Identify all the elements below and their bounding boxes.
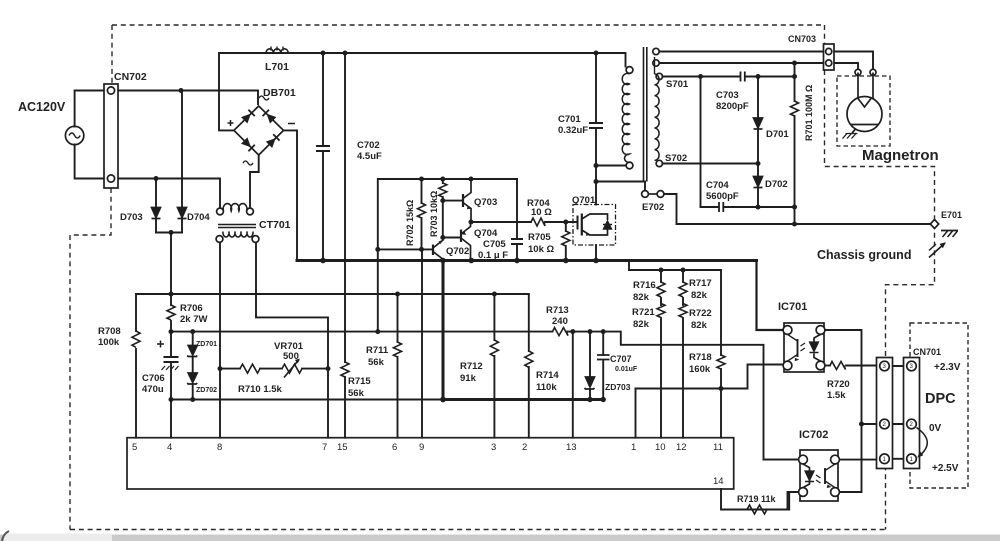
wire doubler output down to chassis line — [794, 207, 796, 224]
svg-text:82k: 82k — [691, 290, 708, 301]
wire sense network top rail y294 — [136, 293, 529, 295]
diode D704 — [178, 208, 187, 219]
wire chassis ground line to E701 — [677, 223, 931, 225]
svg-text:Q702: Q702 — [446, 246, 469, 257]
wire main negative bus y260.5 — [297, 259, 757, 262]
svg-text:C704: C704 — [706, 180, 729, 191]
svg-text:C705: C705 — [483, 239, 506, 250]
svg-text:0.1 μ F: 0.1 μ F — [478, 250, 508, 261]
dashed DPC box — [910, 323, 968, 488]
svg-text:R721: R721 — [632, 307, 655, 318]
svg-text:1: 1 — [631, 442, 636, 453]
svg-text:4: 4 — [167, 442, 172, 453]
resistor R708 — [132, 331, 140, 347]
chassis ground symbol — [929, 231, 958, 258]
diode D703 — [152, 208, 161, 219]
wire IC701 out to x861 column — [825, 330, 862, 492]
svg-text:D701: D701 — [766, 129, 789, 140]
svg-text:+2.3V: +2.3V — [934, 362, 961, 373]
svg-text:R706: R706 — [180, 303, 203, 314]
resistor R719 — [747, 505, 767, 514]
svg-text:R711: R711 — [366, 345, 389, 356]
wire Q703/Q704 midpoint to R704 and gate — [471, 221, 531, 223]
page bottom scroll bar — [0, 535, 1000, 541]
svg-text:56k: 56k — [348, 388, 365, 399]
zener ZD701 — [187, 346, 197, 357]
terminal E702 — [642, 191, 664, 198]
connector CN702 — [104, 84, 118, 188]
svg-text:Chassis ground: Chassis ground — [817, 248, 911, 262]
svg-text:240: 240 — [552, 316, 568, 327]
svg-text:C701: C701 — [558, 114, 581, 125]
transformer T701 primary — [622, 67, 633, 169]
wire DB701 minus terminal to main negative bus — [284, 130, 298, 259]
connector CN701 board-side column — [877, 358, 893, 469]
wire ZD703 column — [589, 332, 591, 376]
svg-text:9: 9 — [419, 442, 424, 453]
AC source AC120V — [65, 126, 83, 144]
zener ZD702 — [187, 373, 197, 384]
svg-text:12: 12 — [676, 442, 687, 453]
svg-text:IC701: IC701 — [778, 301, 807, 313]
svg-text:L701: L701 — [265, 61, 289, 73]
svg-text:R718: R718 — [689, 352, 712, 363]
pin number labels — [132, 442, 724, 487]
wire heater FA to magnetron left terminal — [660, 63, 859, 69]
svg-text:5600pF: 5600pF — [706, 191, 739, 202]
resistor R717 — [679, 282, 687, 297]
wire R712 column to pin 3 — [493, 294, 495, 340]
capacitor C703 (series) — [741, 72, 745, 82]
dashed enclosure left edge through CN702 — [70, 25, 112, 530]
wire R720 row from IC701 to CN701 pin3 — [825, 365, 830, 367]
resistor R721 — [657, 304, 665, 318]
svg-text:14: 14 — [713, 476, 724, 487]
wire primary bottom to C701 node — [596, 165, 626, 167]
capacitor C707 — [597, 355, 610, 360]
potentiometer VR701 — [282, 359, 302, 378]
wire S702 tap line to D701 — [663, 163, 759, 165]
wire thick ground drop x443 — [442, 261, 445, 400]
resistor R712 — [490, 340, 498, 356]
svg-text:6: 6 — [392, 442, 397, 453]
wire pin 13 column — [572, 332, 574, 438]
svg-text:82k: 82k — [691, 320, 708, 331]
svg-text:S701: S701 — [666, 79, 689, 90]
svg-text:E702: E702 — [642, 202, 664, 213]
wire D704 column — [181, 91, 183, 208]
svg-text:11: 11 — [713, 442, 723, 453]
svg-text:S702: S702 — [665, 153, 687, 164]
svg-text:D704: D704 — [187, 212, 210, 223]
optocoupler IC702 — [799, 450, 840, 501]
svg-text:5: 5 — [132, 442, 137, 453]
svg-text:160k: 160k — [689, 364, 711, 375]
resistor R718 — [717, 355, 725, 369]
inductor L701 — [266, 47, 288, 54]
resistor R705 — [562, 231, 570, 246]
svg-text:15: 15 — [337, 442, 348, 453]
resistor R701 — [791, 101, 799, 116]
svg-text:ZD702: ZD702 — [196, 387, 217, 394]
svg-text:R705: R705 — [528, 232, 551, 243]
wire ground rail y399.5 left part — [171, 399, 443, 401]
resistor R702 — [418, 203, 426, 218]
svg-text:Q704: Q704 — [474, 228, 498, 239]
resistor R722 — [679, 304, 687, 318]
svg-text:DPC: DPC — [925, 391, 956, 407]
resistor R704 — [531, 218, 545, 226]
diode D702 — [754, 177, 763, 188]
svg-text:10 Ω: 10 Ω — [531, 207, 552, 218]
wire 0V row from x861 column to CN701 — [862, 423, 880, 425]
svg-text:C707: C707 — [610, 354, 632, 364]
wire D701 column — [757, 77, 759, 118]
wire R711 column to pin 6 — [397, 294, 399, 342]
svg-text:91k: 91k — [460, 373, 477, 384]
svg-text:R703 10kΩ: R703 10kΩ — [429, 191, 439, 237]
wire E702 to chassis line — [664, 194, 677, 224]
IC pin box (hybrid control block) — [127, 438, 734, 489]
svg-text:R710 1.5k: R710 1.5k — [238, 384, 283, 395]
zener ZD703 — [585, 377, 595, 389]
capacitor C706 (electrolytic) — [157, 341, 179, 371]
dashed enclosure bottom edge — [70, 529, 886, 531]
resistor R711 — [394, 342, 402, 357]
connector CN703 — [824, 44, 835, 70]
wire DB701 plus terminal up to L701 top line, and top line to transformer primary — [219, 53, 626, 130]
connector CN701 DPC-side column — [904, 358, 920, 469]
wire pin 7 column — [327, 369, 329, 438]
svg-text:56k: 56k — [368, 357, 385, 368]
junction dots — [179, 88, 184, 93]
svg-text:D702: D702 — [765, 179, 788, 190]
svg-text:DB701: DB701 — [263, 87, 296, 99]
jumper arc on DPC connector — [917, 428, 928, 458]
transistor Q704 — [461, 222, 471, 260]
wire R718 column / pin 11 column — [720, 270, 722, 355]
wire R717/R722 column to pin 12 — [682, 270, 684, 282]
IGBT Q701 with free-wheel diode — [573, 205, 616, 246]
svg-text:8200pF: 8200pF — [716, 101, 749, 112]
svg-text:4.5uF: 4.5uF — [357, 151, 382, 162]
svg-text:D703: D703 — [120, 212, 143, 223]
wire diode joint to control node — [156, 232, 182, 234]
wire R705 column — [565, 222, 567, 231]
diode D701 — [754, 118, 763, 129]
wire pin 14 drop — [721, 489, 749, 510]
wire AC line 2 (bottom) from source to CT701 primary left — [75, 145, 220, 209]
svg-text:Q703: Q703 — [474, 197, 497, 208]
transformer T701 secondary with taps — [653, 48, 663, 166]
wire AC line 1 (top) from source to bridge AC input — [75, 91, 258, 127]
wire C707 column — [602, 332, 604, 355]
svg-text:82k: 82k — [633, 292, 650, 303]
svg-text:E701: E701 — [941, 210, 962, 220]
svg-text:C702: C702 — [357, 140, 380, 151]
wire R701 bottom — [794, 116, 796, 207]
wire thick ground rail segment y399.5 — [443, 398, 603, 401]
svg-text:C706: C706 — [142, 373, 165, 384]
svg-text:13: 13 — [566, 442, 577, 453]
resistor R714 — [525, 351, 533, 367]
magnetron tube — [837, 69, 890, 146]
svg-text:3: 3 — [491, 442, 496, 453]
wire feedback rail y331.6 through R713 — [171, 331, 553, 333]
svg-text:8: 8 — [217, 442, 222, 453]
svg-text:R708: R708 — [98, 326, 121, 337]
wire R702 column / pin 9 column — [421, 179, 423, 203]
svg-text:10k Ω: 10k Ω — [528, 244, 554, 255]
resistor R716 — [657, 282, 665, 297]
wire Q703 base feed — [443, 200, 463, 202]
svg-text:R716: R716 — [633, 280, 656, 291]
svg-text:+2.5V: +2.5V — [932, 463, 959, 474]
wire bus drop to R716/R717 top rail — [629, 261, 721, 270]
capacitor C705 — [511, 239, 523, 244]
svg-text:500: 500 — [283, 351, 299, 362]
wire bus corner down to IC701 — [757, 261, 785, 331]
svg-text:0.01uF: 0.01uF — [615, 366, 638, 373]
transformer CT701 — [216, 204, 259, 243]
svg-text:Q701: Q701 — [572, 195, 596, 206]
wire heater top F to magnetron right terminal — [660, 52, 874, 70]
resistor R710 — [240, 364, 260, 373]
svg-text:R714: R714 — [536, 370, 559, 381]
svg-text:R713: R713 — [546, 305, 569, 316]
wire IC702 top right to CN701 pin1 row — [839, 459, 880, 461]
wire opto feedback y388.5 to IC701 pin4 — [636, 365, 784, 389]
wire R714 column to pin 2 — [528, 294, 530, 351]
capacitor C701 — [589, 123, 603, 128]
wire R710/VR701 chain — [220, 368, 240, 370]
svg-text:110k: 110k — [536, 382, 557, 393]
svg-text:2k 7W: 2k 7W — [180, 314, 207, 325]
wire C702 column — [322, 53, 324, 146]
wire R701 top link — [794, 63, 796, 101]
wire S701 tap line with series C703 — [663, 76, 741, 78]
resistor R703 — [439, 183, 447, 197]
svg-text:R720: R720 — [827, 379, 850, 390]
svg-text:CN701: CN701 — [913, 347, 941, 357]
transistor Q703 — [463, 179, 471, 222]
svg-text:R717: R717 — [689, 278, 712, 289]
wire pin 8 column from CT701 secondary left — [219, 243, 221, 438]
svg-text:R722: R722 — [689, 308, 712, 319]
wire Q702 base line — [378, 248, 433, 250]
svg-text:0V: 0V — [929, 423, 942, 434]
wire Q704 base feed — [443, 237, 461, 239]
bridge rectifier DB701 — [228, 96, 296, 165]
resistor R706 — [167, 305, 175, 320]
transistor Q702 — [433, 238, 443, 262]
svg-text:R702 15kΩ: R702 15kΩ — [405, 200, 415, 246]
wire C701 / Q701 collector column — [595, 53, 597, 123]
wire R716/R721 column to pin 10 — [660, 270, 662, 282]
svg-text:CN703: CN703 — [788, 34, 816, 44]
capacitor C702 — [316, 146, 330, 151]
svg-text:2: 2 — [522, 442, 527, 453]
dashed enclosure right edge through CN703 and E701 — [825, 25, 935, 530]
svg-text:Magnetron: Magnetron — [862, 147, 939, 164]
svg-text:IC702: IC702 — [799, 429, 828, 441]
svg-text:470u: 470u — [142, 384, 164, 395]
pin digits in CN701 circles — [883, 364, 914, 463]
resistor R715 — [341, 362, 349, 377]
wire ZD701/ZD702 column — [192, 332, 194, 345]
svg-text:R712: R712 — [460, 361, 483, 372]
wire pin15 column (R715) from top line to pin 15 — [344, 53, 346, 362]
svg-text:R715: R715 — [348, 376, 371, 387]
svg-text:10: 10 — [655, 442, 666, 453]
svg-text:100k: 100k — [98, 337, 120, 348]
svg-text:CN702: CN702 — [114, 71, 147, 83]
svg-text:82k: 82k — [633, 319, 650, 330]
terminal E701 — [930, 220, 938, 229]
resistor R713 — [553, 328, 569, 336]
page curl mark — [2, 531, 9, 541]
svg-text:CT701: CT701 — [259, 219, 291, 231]
wire C705 column — [516, 179, 518, 239]
capacitor C704 (series) — [719, 202, 723, 212]
wire R706/C706 column to pin 4 — [170, 294, 172, 305]
svg-text:C703: C703 — [716, 90, 739, 101]
wire IC702 bottom left to R719 — [747, 492, 799, 510]
svg-text:7: 7 — [322, 442, 327, 453]
wire C701 node to core bottom / E702 — [596, 182, 645, 191]
wire oscillator top rail — [378, 179, 517, 332]
wire R708 column to pin 5 — [135, 294, 137, 331]
svg-text:ZD701: ZD701 — [196, 341, 217, 348]
wire CN701 row links — [889, 365, 908, 367]
wire D703 column — [155, 179, 157, 208]
resistor R720 — [830, 362, 846, 370]
svg-text:ZD703: ZD703 — [605, 382, 631, 392]
wire VR701 loop to CT701 secondary right — [256, 243, 328, 369]
svg-text:AC120V: AC120V — [18, 100, 66, 114]
transformer T701 core — [644, 47, 647, 182]
dashed enclosure top edge — [112, 24, 825, 26]
wire C704 left column — [700, 77, 702, 208]
wire pin 1 column — [635, 389, 637, 438]
svg-text:R701 100M Ω: R701 100M Ω — [804, 85, 814, 141]
svg-text:0.32uF: 0.32uF — [558, 125, 588, 136]
wire R703 column — [442, 179, 444, 183]
wire D702 column — [757, 164, 759, 177]
optocoupler IC701 — [783, 323, 825, 372]
wire C704 bottom line with series cap — [701, 206, 719, 208]
wire DB701 AC bottom to CT701 primary right — [250, 156, 259, 208]
wire IC702 input row from feedback column — [764, 459, 800, 461]
svg-text:1.5k: 1.5k — [827, 390, 846, 401]
svg-text:R719 11k: R719 11k — [737, 494, 777, 504]
